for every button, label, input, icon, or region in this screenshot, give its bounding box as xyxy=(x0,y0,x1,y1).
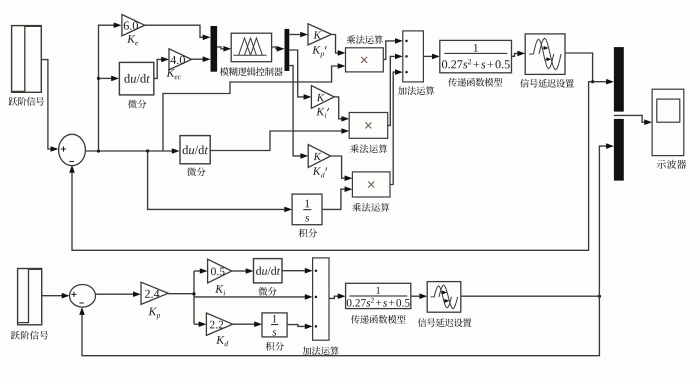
scope block 示波器 xyxy=(652,89,684,155)
wire error branch to multiplier 1 xyxy=(163,63,346,151)
wire step1 to sum1 xyxy=(41,60,58,152)
fuzzy logic controller block xyxy=(231,33,271,62)
wire bottom feedback to sum2 xyxy=(79,296,599,356)
label Kp xyxy=(148,308,160,320)
wire demux out2 to Ki gain xyxy=(289,50,311,100)
wire du/dt3 to adder2 xyxy=(282,268,313,274)
gain block Ki' (fuzzy) xyxy=(311,86,334,109)
multiplier block 3 xyxy=(352,172,390,197)
label 跃阶信号 (top step source) xyxy=(9,97,45,106)
derivative block du/dt (top) xyxy=(119,62,153,95)
label Ki' xyxy=(316,108,328,118)
label 微分 (middle derivative) xyxy=(187,167,205,176)
transfer function block (bottom) xyxy=(346,283,411,308)
sum junction circle (bottom) xyxy=(70,285,96,308)
wire top feedback to sum1 xyxy=(69,82,592,251)
wire sum1 output with branch junctions xyxy=(85,148,179,154)
step source block 跃阶信号 (top input) xyxy=(12,26,42,93)
wire demux out3 to Kd gain xyxy=(289,66,308,159)
transport delay block (bottom) 信号延迟设置 xyxy=(427,282,461,313)
label 信号延迟设置 (top) xyxy=(520,79,574,88)
wire mux to scope xyxy=(614,115,652,125)
gain block 6.0 Ke xyxy=(122,15,145,36)
gain block Kp' (fuzzy) xyxy=(308,24,331,45)
wire multiplier 2 to adder xyxy=(388,54,403,126)
label 传递函数模型 (top) xyxy=(448,78,502,87)
label Kd xyxy=(216,336,228,346)
label Kec xyxy=(166,69,181,79)
gain block 0.5 Ki xyxy=(208,259,232,283)
wire 0.5 to du/dt3 xyxy=(232,268,254,274)
wire 2.2 to integrator 2 xyxy=(233,321,262,327)
label Kp' xyxy=(312,46,326,58)
wire bottom loop to scope mux xyxy=(599,143,614,296)
label 加法运算 (top adder) xyxy=(398,86,434,95)
step source block 跃阶信号 (bottom input) xyxy=(18,269,42,325)
label 跃阶信号 (bottom step source) xyxy=(11,331,48,340)
wire delay 2 to junction xyxy=(461,295,601,298)
label 传递函数模型 (bottom) xyxy=(351,315,406,324)
adder block (bottom) 加法运算 xyxy=(313,258,329,340)
wire delay 1 to scope mux xyxy=(565,53,614,85)
wire multiplier 3 to adder xyxy=(390,69,403,184)
wire adder to transfer function 1 xyxy=(423,54,439,60)
label 微分 (bottom derivative) xyxy=(258,287,276,296)
gain block Kd' (fuzzy) xyxy=(308,145,331,168)
wire Ki gain to multiplier 2 xyxy=(334,97,349,122)
wire branch up to gains xyxy=(97,22,122,151)
wire du/dt2 to multiplier 2 xyxy=(210,128,349,150)
gain block 2.2 Kd xyxy=(206,313,232,335)
multiplier block 1 xyxy=(346,48,384,72)
label Kd' xyxy=(313,167,327,177)
wire mux1 to fuzzy controller xyxy=(217,46,231,52)
label 积分 (top integrator) xyxy=(299,229,318,238)
label 乘法运算 (multiplier 3) xyxy=(352,203,389,212)
wire sum2 to gain 2.4 xyxy=(96,291,141,297)
mux bar (fuzzy controller input) xyxy=(211,26,218,72)
label 乘法运算 (multiplier 1) xyxy=(347,35,383,44)
integrator block 1/s (bottom) xyxy=(262,313,287,337)
derivative block du/dt (bottom) xyxy=(254,259,283,283)
wire multiplier 1 to adder xyxy=(383,38,403,59)
wire 6.0 to mux1 xyxy=(145,25,211,40)
gain block 4.0 Kec xyxy=(169,49,192,70)
wire 4.0 to mux1 xyxy=(192,56,211,62)
sum junction circle (top) xyxy=(59,134,86,165)
gain block 2.4 Kp xyxy=(141,282,168,304)
label 加法运算 (bottom adder) xyxy=(303,346,339,355)
wire 2.4 output branch xyxy=(168,271,312,324)
wire demux out1 to Kp gain xyxy=(289,32,308,38)
derivative block du/dt (middle) xyxy=(180,136,210,164)
demux bar (fuzzy controller output) xyxy=(285,29,290,71)
label 乘法运算 (multiplier 2) xyxy=(350,144,387,153)
wire branch to gain 2.2 xyxy=(194,321,206,327)
wire step2 to sum2 xyxy=(42,293,70,299)
mux bar (scope input) xyxy=(614,47,624,181)
label 模糊逻辑控制器 xyxy=(220,67,283,76)
label 积分 (bottom integrator) xyxy=(266,342,285,351)
integrator block 1/s (top) xyxy=(292,194,322,225)
wire Kd gain to multiplier 3 xyxy=(331,156,353,181)
wire transfer function 2 to delay 2 xyxy=(411,293,427,299)
label Ki xyxy=(215,285,225,295)
adder block (top) 加法运算 xyxy=(403,31,424,82)
multiplier block 2 xyxy=(349,113,388,139)
wire adder2 to transfer function 2 xyxy=(329,293,346,299)
transport delay block (top) 信号延迟设置 xyxy=(525,34,565,75)
wire integrator 2 to adder2 xyxy=(287,324,313,330)
wire du/dt1 to gain 4.0 xyxy=(154,57,169,79)
wire branch to gain 0.5 xyxy=(194,268,208,274)
wire branch down to integrator xyxy=(148,151,293,212)
label 示波器 xyxy=(657,160,686,169)
label 信号延迟设置 (bottom) xyxy=(418,318,472,327)
wire fuzzy to demux xyxy=(272,46,285,52)
wire transfer function 1 to delay 1 xyxy=(512,51,526,57)
wire branch to derivative 1 xyxy=(99,76,120,82)
wire Kp gain to multiplier 1 xyxy=(331,35,345,56)
label Ke xyxy=(127,35,138,45)
wire integrator to multiplier 3 xyxy=(322,186,352,209)
transfer function block (top) xyxy=(440,40,512,72)
label 微分 (top derivative) xyxy=(128,100,146,109)
